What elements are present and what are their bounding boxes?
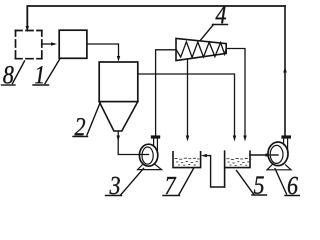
label underline 2 xyxy=(73,136,88,138)
label 8 xyxy=(3,66,13,84)
wire box1 to hopper xyxy=(87,44,119,56)
label leader 2 xyxy=(87,102,100,135)
vessel 2 rectangle body xyxy=(99,62,138,102)
wire arrowhead into tank 5 (left) xyxy=(233,136,236,142)
wire arrow into box 8 xyxy=(26,26,29,32)
label 2 xyxy=(75,118,86,135)
label underline 6 xyxy=(285,195,300,197)
wire overflow trap tank5 to tank7 xyxy=(207,156,225,187)
wire arrowhead into pump 6 xyxy=(266,153,272,156)
wire arrowhead into tank 5 (right) xyxy=(243,136,246,142)
wire top recycle line xyxy=(27,6,285,27)
wire exchanger right outlet down to tank 5 xyxy=(226,49,245,136)
wire pump3 up to exchanger 4 xyxy=(156,50,176,136)
pump 3 xyxy=(138,135,162,169)
label 1 xyxy=(35,66,43,83)
vessel 2 funnel xyxy=(99,102,138,131)
label leader 7 xyxy=(179,169,194,195)
label leader 8 xyxy=(13,61,25,84)
pump 6 xyxy=(267,135,291,169)
wire exchanger bottom outlet down to tank 7 xyxy=(187,59,189,136)
label 7 xyxy=(166,177,177,194)
label underline 4 xyxy=(213,24,228,26)
dashed box 8 xyxy=(16,31,42,59)
wire right vertical from pump 6 up to top line xyxy=(284,6,286,135)
tank 5 xyxy=(225,151,250,187)
label leader 6 xyxy=(275,169,287,195)
tank 5 liquid xyxy=(227,158,251,165)
label underline 8 xyxy=(2,84,16,86)
wire tank5 outlet to pump 6 xyxy=(250,154,266,156)
tank 7 liquid xyxy=(175,158,199,165)
wire arrowhead into tank 7 wall xyxy=(201,154,207,157)
tank 7 xyxy=(173,152,201,168)
label leader 3 xyxy=(121,169,144,195)
wire arrowhead into tank 7 xyxy=(186,136,189,142)
heat exchanger 4 zigzag coil xyxy=(176,42,226,58)
label 6 xyxy=(288,177,298,194)
label underline 5 xyxy=(252,194,267,196)
label underline 1 xyxy=(33,84,49,86)
heat exchanger 4 body xyxy=(176,38,226,60)
wire hopper side outlet to tank 5 xyxy=(138,74,235,136)
label leader 5 xyxy=(237,171,254,195)
box 1 xyxy=(59,30,87,58)
label 3 xyxy=(109,177,119,194)
label underline 3 xyxy=(106,195,122,197)
wire 8 to 1 xyxy=(42,43,52,45)
wire up arrowhead on right vertical xyxy=(283,67,287,73)
wire hopper neck down to pump 3 xyxy=(118,131,148,155)
wire arrowhead into box 1 xyxy=(51,42,57,45)
label underline 7 xyxy=(163,195,180,197)
wire arrowhead on neck pipe xyxy=(117,136,120,142)
wire arrowhead into hopper top xyxy=(117,56,120,62)
label leader 1 xyxy=(45,60,60,84)
label 4 xyxy=(215,6,225,23)
label 5 xyxy=(254,176,264,193)
label leader 4 xyxy=(201,25,214,41)
